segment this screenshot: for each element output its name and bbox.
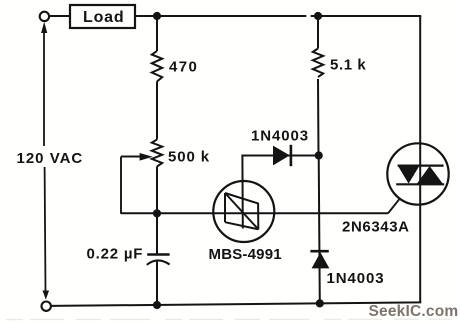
svg-text:5.1 k: 5.1 k	[330, 57, 366, 74]
wire top bus from load to right corner	[135, 15, 421, 17]
svg-text:470: 470	[169, 59, 198, 76]
scan gap in top bus	[306, 13, 310, 20]
wire left side upper segment with source arrow up	[41, 22, 47, 146]
triac U2 right triangle	[417, 166, 444, 184]
part label MBS-4991	[209, 246, 282, 263]
wire pot R2 bottom through node B to capacitor C1	[156, 167, 158, 256]
value label 120 VAC	[17, 150, 84, 167]
terminal top left	[40, 12, 49, 21]
triac U2 upper bar	[398, 165, 444, 167]
triac U2 body circle	[387, 143, 448, 204]
node junction bottom bus diode D2	[316, 299, 324, 307]
capacitor C1 top plate	[147, 253, 169, 256]
svg-text:0.22 µF: 0.22 µF	[87, 246, 144, 263]
wire node A column: top bus to R1	[156, 16, 158, 51]
terminal bottom left	[42, 302, 51, 311]
wire bottom bus	[51, 302, 421, 306]
svg-text:120 VAC: 120 VAC	[17, 150, 84, 167]
triac U2 lower bar	[396, 183, 444, 185]
wire SBS U1 top lead down into circle	[241, 156, 243, 229]
triac U2 left triangle	[398, 166, 420, 184]
value label 470	[169, 59, 198, 76]
wire terminal to load	[49, 15, 71, 17]
svg-text:1N4003: 1N4003	[251, 128, 309, 145]
node junction top R3	[314, 12, 322, 20]
resistor R1 470 zigzag	[152, 51, 162, 81]
wire 5.1k column: top bus to R3	[317, 16, 319, 49]
wire R3 bottom to node C and down through crossing to diode D2 and bottom bus	[318, 79, 320, 303]
part label 2N6343A	[342, 219, 410, 236]
value label 500 k	[168, 149, 210, 166]
SBS U1 body circle	[213, 181, 274, 242]
wire diode D1 horizontal from corner to node C	[241, 155, 318, 157]
svg-text:Load: Load	[83, 9, 124, 26]
diode D1 1N4003 triangle and cathode bar	[273, 145, 291, 166]
value label 1N4003 top	[251, 128, 309, 145]
load box L1	[70, 5, 135, 28]
scan streak bottom edge	[6, 318, 452, 320]
node C junction diode D1 and R3	[315, 151, 323, 159]
wire left side lower segment with source arrow down	[43, 167, 50, 300]
wire R1 bottom to pot R2 top	[156, 82, 158, 140]
svg-text:2N6343A: 2N6343A	[342, 219, 410, 236]
resistor R3 5.1k zigzag	[313, 49, 323, 78]
value label 1N4003 bottom	[327, 270, 385, 287]
capacitor C1 curved bottom plate	[147, 260, 170, 264]
svg-text:SeekIC.com: SeekIC.com	[369, 303, 459, 320]
value label 5.1 k	[330, 57, 366, 74]
watermark SeekIC.com	[369, 303, 459, 320]
svg-text:MBS-4991: MBS-4991	[209, 246, 282, 263]
value label 0.22 uF	[87, 246, 144, 263]
diode D2 1N4003 cathode bar and triangle	[310, 251, 329, 268]
potentiometer R2 wiper arrow head	[140, 153, 153, 161]
node junction top load-R1	[153, 12, 161, 20]
potentiometer R2 500k zigzag	[152, 140, 162, 167]
wire capacitor C1 bottom to bottom bus	[156, 260, 158, 305]
wire right side vertical through triac	[419, 16, 421, 303]
svg-text:1N4003: 1N4003	[327, 270, 385, 287]
node B junction pot wiper column	[153, 209, 161, 217]
wire gate bus from wiper to triac gate	[121, 198, 400, 213]
wire pot wiper horizontal tail	[121, 156, 141, 158]
SBS U1 inner symbol	[225, 193, 258, 230]
wire pot wiper down leg	[120, 157, 122, 214]
svg-text:500 k: 500 k	[168, 149, 210, 166]
node junction bottom bus capacitor	[153, 301, 161, 309]
